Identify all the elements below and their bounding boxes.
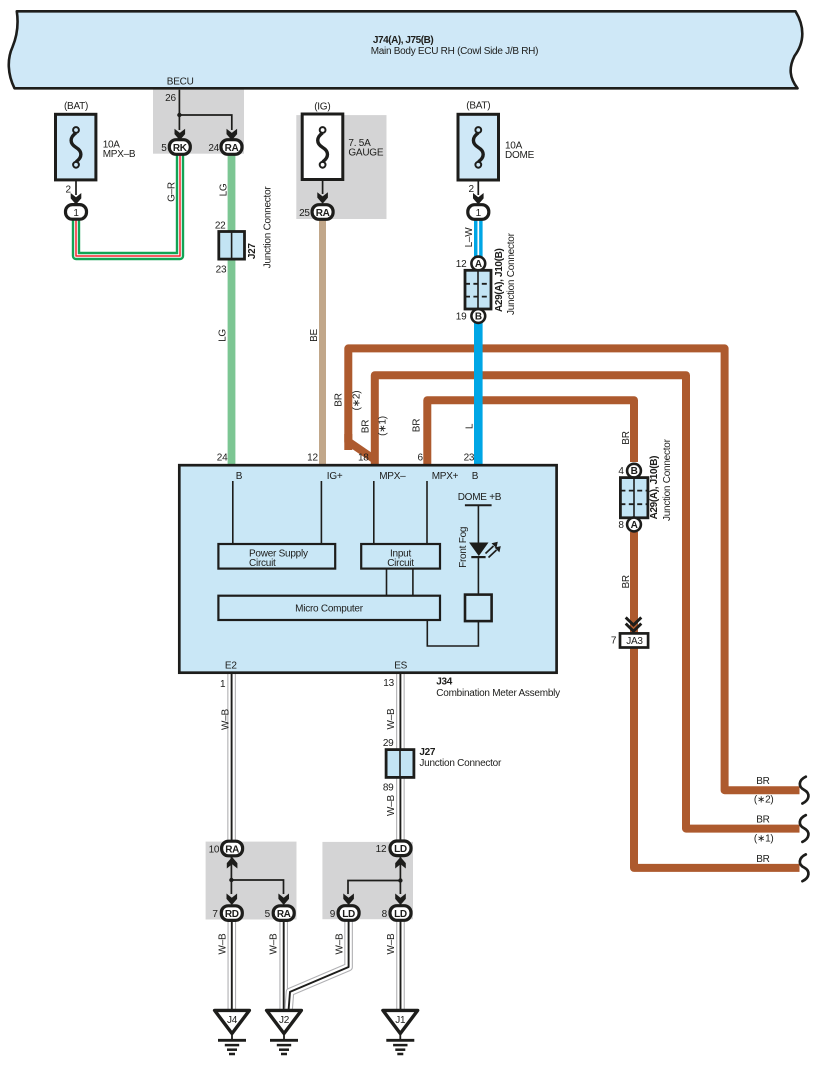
svg-text:W–B: W–B <box>386 933 397 955</box>
svg-text:BR: BR <box>412 419 423 432</box>
J34 combination meter box <box>179 465 556 673</box>
oval 1 MPX-B <box>66 205 87 220</box>
svg-text:5: 5 <box>265 909 271 920</box>
svg-text:7: 7 <box>212 909 218 920</box>
svg-text:23: 23 <box>464 452 475 463</box>
wire driver square to micro computer <box>427 620 478 646</box>
oval 8 LD <box>390 906 411 921</box>
svg-text:J4: J4 <box>227 1015 238 1026</box>
svg-text:GAUGE: GAUGE <box>348 148 383 159</box>
arrow into 9 LD <box>343 894 354 906</box>
gray shade box bottom-left relay block <box>206 842 297 920</box>
svg-text:L: L <box>464 423 475 429</box>
junction connector J27 top box <box>219 232 245 260</box>
fuse MPX-B box <box>56 114 96 180</box>
svg-text:RA: RA <box>277 909 291 920</box>
oval 7 RD <box>221 906 242 921</box>
svg-text:24: 24 <box>208 143 219 154</box>
svg-text:B: B <box>631 466 638 477</box>
wire LED to driver square <box>477 557 479 595</box>
wire W-B from 9 LD merging into ground J2 <box>289 919 349 1011</box>
svg-text:W–B: W–B <box>220 708 231 730</box>
LED emission arrows <box>486 546 497 558</box>
arrow up into 10 RA <box>227 857 238 869</box>
wire W-B from 8 LD to ground J1 <box>396 919 405 1011</box>
svg-text:10: 10 <box>209 844 220 855</box>
svg-text:BECU: BECU <box>167 76 194 87</box>
svg-text:26: 26 <box>165 93 176 104</box>
svg-text:12: 12 <box>456 259 467 270</box>
wire DOME fuse tail <box>477 168 479 195</box>
wire W-B from 5 RA to ground J2 <box>279 919 288 1011</box>
svg-text:23: 23 <box>216 264 227 275</box>
svg-text:1: 1 <box>476 208 482 219</box>
svg-text:J74(A), J75(B): J74(A), J75(B) <box>373 35 434 46</box>
fuse IG symbol <box>318 127 328 168</box>
svg-text:BR: BR <box>334 393 345 406</box>
svg-text:BR: BR <box>621 575 632 588</box>
svg-text:MPX–B: MPX–B <box>103 149 136 160</box>
power supply circuit box <box>218 544 335 569</box>
svg-text:MPX+: MPX+ <box>432 471 459 482</box>
gray shade box IG fuse <box>296 115 386 219</box>
chevron page connector above JA3 <box>626 617 642 631</box>
svg-text:BR: BR <box>621 431 632 444</box>
svg-text:BR: BR <box>756 776 769 787</box>
svg-text:ES: ES <box>394 661 407 672</box>
arrow into MPX-B oval 1 <box>71 193 82 205</box>
svg-text:RA: RA <box>225 143 239 154</box>
svg-text:A: A <box>631 520 638 531</box>
svg-text:LG: LG <box>217 329 228 342</box>
ground J4 <box>215 1010 250 1054</box>
svg-text:E2: E2 <box>225 661 237 672</box>
svg-text:8: 8 <box>382 909 388 920</box>
svg-text:W–B: W–B <box>269 933 280 955</box>
oval 5 RA <box>273 906 294 921</box>
svg-text:19: 19 <box>456 311 467 322</box>
svg-text:RA: RA <box>225 844 239 855</box>
wire J34 internal MPX+ to input circuit <box>426 481 428 544</box>
svg-text:Combination Meter Assembly: Combination Meter Assembly <box>436 688 560 699</box>
svg-text:RK: RK <box>173 143 188 154</box>
svg-text:2: 2 <box>468 184 474 195</box>
svg-text:W–B: W–B <box>217 933 228 955</box>
arrow into 8 LD <box>395 894 406 906</box>
oval 24 RA <box>221 140 242 155</box>
oval 12 LD <box>390 841 411 856</box>
wire BECU pin 26 branch <box>179 90 231 130</box>
oval 10 RA <box>222 841 243 856</box>
svg-text:1: 1 <box>73 208 79 219</box>
wire BR from pin 6 MPX+ to junction connector B <box>427 400 634 465</box>
svg-text:18: 18 <box>358 452 369 463</box>
wire W-B from J34 ES pin 13 through J27 to 12 LD <box>396 673 405 845</box>
wire BR junction A down through JA3 to right edge <box>634 532 800 868</box>
arrow into 24 RA <box>227 129 238 141</box>
svg-text:W–B: W–B <box>386 794 397 816</box>
svg-text:2: 2 <box>65 185 71 196</box>
svg-text:DOME: DOME <box>505 150 535 161</box>
svg-text:(∗2): (∗2) <box>754 795 774 806</box>
arrow into 5 RK <box>175 129 186 141</box>
wire MPX-B fuse tail <box>75 168 77 195</box>
micro computer box <box>218 596 440 620</box>
wire BR (*2) from pin 18 up over to right edge <box>348 348 799 790</box>
gray shade box bottom-right relay block <box>322 842 413 919</box>
junction connector J27 bottom box <box>386 750 414 778</box>
wire J34 internal IG+ to power supply <box>320 481 322 544</box>
svg-text:24: 24 <box>217 452 228 463</box>
svg-text:Circuit: Circuit <box>387 558 414 569</box>
svg-text:LD: LD <box>394 844 407 855</box>
svg-text:5: 5 <box>161 143 167 154</box>
relay block right: wire 12LD to LD/LD <box>348 855 400 894</box>
gray shade box BECU <box>153 90 244 154</box>
svg-text:RD: RD <box>225 909 239 920</box>
svg-text:Circuit: Circuit <box>249 558 276 569</box>
svg-text:Junction Connector: Junction Connector <box>662 438 673 521</box>
wire BE from 25 RA to J34 pin 12 <box>319 217 326 466</box>
node relay right junction <box>398 878 402 882</box>
wire J34 internal B to power supply <box>232 481 234 544</box>
svg-text:B: B <box>472 471 479 482</box>
junction connector A29/J10 top box <box>471 257 485 271</box>
fuse MPX-B symbol <box>71 127 81 168</box>
wire BR (*2) diagonal jog into pin 18 <box>348 434 374 460</box>
wire input circuit to micro computer links <box>386 569 388 596</box>
oval 25 RA <box>312 205 333 220</box>
svg-text:1: 1 <box>220 679 226 690</box>
wire IG fuse tail <box>322 168 324 194</box>
svg-text:4: 4 <box>618 466 624 477</box>
svg-text:Junction Connector: Junction Connector <box>506 232 517 315</box>
svg-text:BR: BR <box>756 854 769 865</box>
svg-text:BE: BE <box>309 329 320 342</box>
svg-text:Front Fog: Front Fog <box>458 527 469 568</box>
banner Main Body ECU strip <box>9 11 803 88</box>
oval 9 LD <box>338 906 359 921</box>
wire W-B from 7 RD to ground J4 <box>228 919 237 1011</box>
connector box JA3 <box>620 633 648 647</box>
svg-text:22: 22 <box>215 221 226 232</box>
wire DOME +B to LED <box>477 505 479 543</box>
fuse DOME box <box>458 114 499 180</box>
svg-text:(∗1): (∗1) <box>754 834 774 845</box>
svg-text:BR: BR <box>756 815 769 826</box>
svg-text:J34: J34 <box>436 676 452 687</box>
svg-text:6: 6 <box>417 452 423 463</box>
node BECU branch junction <box>177 113 181 117</box>
LED front fog <box>469 543 488 557</box>
svg-text:B: B <box>475 311 482 322</box>
wire G-R from fuse oval to 5 RK <box>76 152 180 256</box>
svg-text:JA3: JA3 <box>626 636 643 647</box>
oval 1 DOME <box>468 205 489 220</box>
wire LG from 24 RA through J27 to J34 pin 24 <box>228 152 236 466</box>
svg-text:Main Body ECU RH (Cowl Side J/: Main Body ECU RH (Cowl Side J/B RH) <box>371 46 538 57</box>
svg-text:13: 13 <box>383 678 394 689</box>
svg-text:12: 12 <box>307 452 318 463</box>
wire L from junction B to J34 pin 23 <box>474 321 483 466</box>
svg-text:89: 89 <box>383 782 394 793</box>
svg-text:9: 9 <box>330 909 336 920</box>
svg-text:(BAT): (BAT) <box>466 101 490 112</box>
node relay left junction <box>229 878 233 882</box>
svg-text:8: 8 <box>618 520 624 531</box>
svg-text:RA: RA <box>316 208 330 219</box>
svg-text:W–B: W–B <box>334 933 345 955</box>
svg-text:(IG): (IG) <box>314 102 330 113</box>
svg-text:LD: LD <box>342 909 355 920</box>
svg-text:(∗1): (∗1) <box>377 416 388 436</box>
curl continuation BR JA3 <box>800 854 809 881</box>
wire W-B from J34 E2 pin 1 to 10 RA <box>227 673 236 845</box>
ground J2 <box>267 1010 302 1054</box>
svg-text:J2: J2 <box>279 1015 290 1026</box>
DOME +B terminal bar <box>465 504 492 506</box>
svg-text:7: 7 <box>611 636 617 647</box>
wire BR (*1) from pin 18 to right edge <box>375 375 800 828</box>
svg-text:J27: J27 <box>419 747 435 758</box>
svg-text:LD: LD <box>394 909 407 920</box>
junction connector A29/J10 right box <box>627 464 641 478</box>
input circuit box <box>361 544 440 569</box>
arrow into 5 RA <box>278 894 289 906</box>
svg-text:J27: J27 <box>247 243 258 259</box>
svg-text:W–B: W–B <box>386 708 397 730</box>
curl continuation BR (*2) <box>800 777 809 804</box>
driver square box <box>465 595 492 622</box>
svg-text:A29(A), J10(B): A29(A), J10(B) <box>649 456 660 519</box>
svg-text:L–W: L–W <box>464 227 475 248</box>
svg-text:(∗2): (∗2) <box>351 391 362 411</box>
arrow up into 12 LD <box>395 857 406 869</box>
arrow into DOME oval 1 <box>473 193 484 205</box>
svg-text:B: B <box>236 471 243 482</box>
arrow into 25 RA <box>317 192 328 204</box>
wire L-W from DOME oval to junction A <box>474 217 483 258</box>
svg-text:BR: BR <box>360 420 371 433</box>
curl continuation BR (*1) <box>800 815 809 842</box>
svg-text:G–R: G–R <box>167 182 178 202</box>
svg-text:12: 12 <box>376 844 387 855</box>
svg-text:(BAT): (BAT) <box>64 101 88 112</box>
wire J34 internal MPX- to input circuit <box>373 481 375 544</box>
svg-text:25: 25 <box>299 208 310 219</box>
oval 5 RK <box>169 140 190 155</box>
svg-text:Junction Connector: Junction Connector <box>419 758 502 769</box>
svg-text:DOME +B: DOME +B <box>458 492 502 503</box>
svg-text:J1: J1 <box>395 1015 406 1026</box>
svg-text:A29(A), J10(B): A29(A), J10(B) <box>494 249 505 312</box>
svg-text:A: A <box>475 259 482 270</box>
ground J1 <box>383 1010 418 1054</box>
relay block left: wire 10RA to RD/RA <box>231 855 283 894</box>
fuse DOME symbol <box>473 127 483 168</box>
svg-text:LG: LG <box>218 183 229 196</box>
svg-text:IG+: IG+ <box>327 471 343 482</box>
svg-text:Junction Connector: Junction Connector <box>262 186 273 269</box>
svg-text:Micro Computer: Micro Computer <box>295 604 364 615</box>
fuse IG box <box>302 114 343 180</box>
arrow into 7 RD <box>227 894 238 906</box>
svg-text:29: 29 <box>383 738 394 749</box>
svg-text:MPX–: MPX– <box>379 471 406 482</box>
